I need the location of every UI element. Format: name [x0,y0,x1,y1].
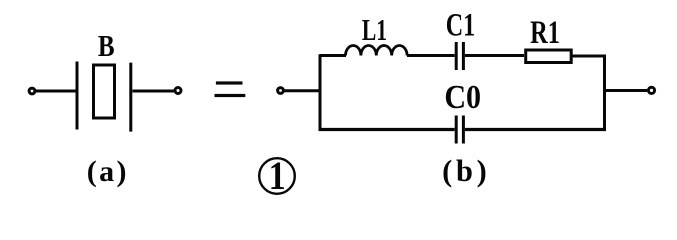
resistor R1 box [526,50,572,63]
svg-text:C0: C0 [444,79,481,116]
wire [407,54,455,57]
bottom wire left [319,128,455,131]
svg-text:1: 1 [269,155,286,199]
left vertical wire [319,54,322,131]
svg-text:L1: L1 [362,12,387,47]
svg-text:C1: C1 [446,7,475,43]
crystal right plate [129,63,132,132]
wire [36,90,76,93]
crystal B body [94,65,115,118]
circled number 1 [259,158,295,194]
crystal terminal right [175,88,181,94]
wire [284,89,319,92]
inductor L1 [346,46,408,56]
capacitor C1 plates [455,42,458,70]
right vertical wire [603,55,606,131]
bottom wire right [465,128,606,131]
terminal right of (b) [648,87,654,93]
crystal left plate [76,62,79,130]
svg-text:R1: R1 [530,16,560,51]
wire [465,54,524,57]
wire [571,55,606,58]
equals sign [215,81,246,97]
svg-text:(b): (b) [442,154,490,188]
capacitor C0 plates [455,116,458,144]
wire [320,54,346,57]
wire to right terminal [606,89,647,92]
crystal terminal left [29,88,35,94]
svg-text:B: B [98,29,115,63]
wire [133,90,175,93]
terminal left of (b) [278,88,284,94]
svg-text:(a): (a) [87,155,129,188]
